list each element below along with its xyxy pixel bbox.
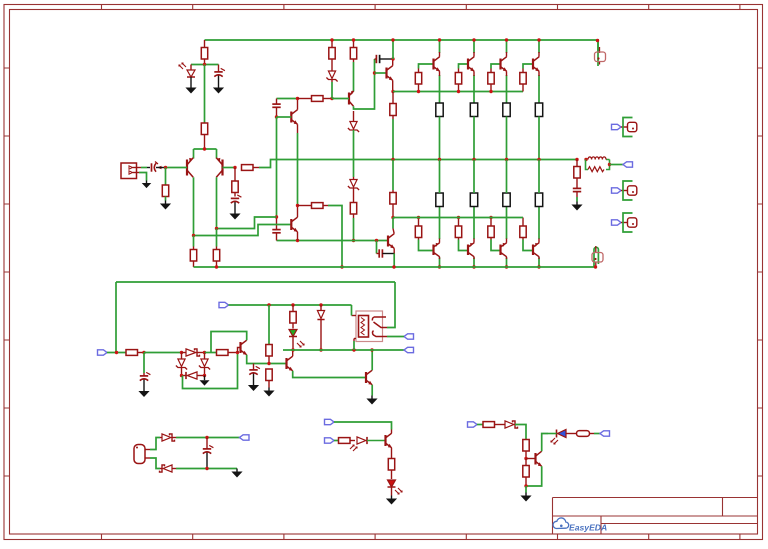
wire <box>439 71 441 76</box>
diode D6 zener <box>176 353 187 376</box>
wire Q4 base <box>332 98 349 100</box>
net pin OUT_A <box>404 334 414 339</box>
wire <box>538 75 540 103</box>
wire <box>503 424 505 426</box>
resistor R10 <box>390 92 396 120</box>
wire <box>387 282 395 328</box>
wire <box>297 99 299 110</box>
wire <box>216 149 218 159</box>
LED D9 green <box>289 330 304 348</box>
wire Q2 collector <box>216 177 218 228</box>
wire <box>393 248 395 253</box>
junction <box>352 348 355 351</box>
wire <box>292 337 294 351</box>
junction <box>594 265 597 268</box>
junction <box>340 265 343 268</box>
resistor R6 <box>298 96 333 102</box>
connector J2 <box>621 118 637 137</box>
relay K1 <box>352 311 388 342</box>
wire node A <box>191 64 219 66</box>
wire <box>392 80 394 91</box>
junction <box>215 265 218 268</box>
ground GND7 <box>199 378 209 386</box>
junction <box>296 97 299 100</box>
wire to V- rail <box>328 206 342 268</box>
wire <box>439 52 441 57</box>
wire <box>268 305 270 345</box>
wire stair A <box>217 217 277 229</box>
junction <box>203 351 206 354</box>
resistor R30 <box>213 247 219 268</box>
junction <box>524 457 527 460</box>
wire <box>538 40 540 53</box>
net pin P_LED3 <box>600 431 610 436</box>
wire <box>526 466 542 486</box>
junction <box>472 265 475 268</box>
wire Q3 base <box>277 116 292 118</box>
wire <box>376 241 378 254</box>
wire bias rail lower <box>393 217 523 219</box>
wire Q1 collector <box>193 177 195 235</box>
wire <box>506 258 508 268</box>
transistor Q19 <box>386 433 392 448</box>
wire <box>297 133 299 206</box>
resistor R39 <box>483 422 503 428</box>
junction <box>203 63 206 66</box>
net pin P_MUTE <box>468 422 478 427</box>
resistor R22 <box>520 218 526 240</box>
ground GND8 <box>138 388 149 397</box>
wire <box>160 437 162 439</box>
ground GND10 <box>263 388 274 397</box>
wire <box>506 40 508 53</box>
transistor Q6 output NPN <box>434 57 440 72</box>
resistor R15 emitter <box>436 103 443 117</box>
wire <box>351 305 353 316</box>
wire Q20 base <box>526 458 536 460</box>
wire <box>297 232 299 241</box>
wire <box>371 385 373 396</box>
wire <box>538 160 540 194</box>
wire <box>506 52 508 57</box>
ground GND14 <box>520 493 531 502</box>
wire <box>353 341 355 350</box>
wire Q9 base <box>523 64 533 69</box>
transistor Q13 output PNP <box>533 243 539 257</box>
wire <box>334 440 339 442</box>
wire V- rail <box>194 266 598 268</box>
connector J1 audio input <box>121 163 141 179</box>
resistor R17 emitter <box>503 103 510 117</box>
junction <box>489 216 492 219</box>
wire <box>391 487 393 496</box>
junction <box>275 215 278 218</box>
transistor Q15 bias servo <box>388 234 394 249</box>
wire <box>473 257 475 259</box>
junction <box>608 163 611 166</box>
wire stair B <box>194 225 292 236</box>
wire Q16 collector <box>211 332 247 353</box>
wire <box>197 352 205 354</box>
wire VAS out rail <box>277 240 389 242</box>
wire Q5 base <box>375 72 387 74</box>
resistor R29 <box>190 247 196 268</box>
junction <box>537 265 540 268</box>
resistor R2 <box>201 123 207 149</box>
wire <box>473 71 475 76</box>
wire <box>473 52 475 57</box>
ground GND11 <box>366 396 377 405</box>
resistor R18 emitter <box>535 103 542 117</box>
wire <box>277 98 298 100</box>
junction <box>537 38 540 41</box>
resistor R41 <box>577 431 595 437</box>
wire <box>439 258 441 268</box>
junction <box>505 265 508 268</box>
wire <box>165 197 167 201</box>
wire <box>204 376 206 378</box>
resistor R12 <box>455 69 461 92</box>
wire <box>150 458 160 469</box>
wire <box>393 254 395 268</box>
transistor Q18 <box>366 370 372 385</box>
junction <box>233 166 236 169</box>
junction <box>205 436 208 439</box>
LED D1 <box>179 63 195 77</box>
wire <box>538 239 540 243</box>
wire <box>172 437 176 439</box>
wire Q7 base <box>459 64 469 69</box>
resistor R36 <box>290 305 296 329</box>
wire Q16 base <box>238 348 241 353</box>
resistor R11 <box>415 69 421 92</box>
wire <box>334 422 392 430</box>
wire <box>391 448 393 459</box>
connector J3 <box>621 181 637 200</box>
resistor R5 feedback <box>242 165 260 171</box>
wire <box>392 160 394 191</box>
polarized capacitor C9 <box>140 372 151 388</box>
wire <box>297 206 299 218</box>
wire protection top <box>116 281 395 283</box>
wire <box>391 430 393 434</box>
diode D3 zener <box>348 111 359 132</box>
ground GND3 <box>142 181 152 189</box>
junction <box>203 374 206 377</box>
resistor R4 <box>232 168 238 197</box>
wire <box>193 236 195 247</box>
wire <box>293 371 366 378</box>
net pin net pin J4 <box>612 220 622 225</box>
wire Q16 emitter <box>247 355 287 364</box>
wire <box>506 117 508 160</box>
svg-text:EasyEDA: EasyEDA <box>569 523 607 533</box>
wire <box>439 160 441 194</box>
transistor Q12 output PNP <box>501 243 507 257</box>
capacitor C4 miller <box>272 99 280 118</box>
ground GND12 <box>231 469 242 478</box>
junction <box>438 265 441 268</box>
diode D10 <box>317 305 324 350</box>
wire relay rail <box>283 349 404 351</box>
wire <box>190 77 192 85</box>
wire <box>172 468 176 470</box>
junction <box>417 216 420 219</box>
junction <box>319 303 322 306</box>
junction <box>291 303 294 306</box>
wire <box>182 352 187 354</box>
net pin net pin J3 <box>612 188 622 193</box>
wire <box>205 352 217 354</box>
wire Q6 base <box>419 64 434 69</box>
net pin TH1 <box>240 435 250 440</box>
wire <box>439 117 441 160</box>
junction <box>596 39 599 42</box>
wire Q13 base <box>523 240 533 251</box>
junction <box>180 374 183 377</box>
transistor Q5 pre-driver <box>387 66 393 81</box>
diode D11 <box>162 434 175 441</box>
connector J4 <box>621 213 637 232</box>
wire <box>297 124 299 133</box>
wire <box>387 336 404 338</box>
connector P2 negative supply <box>592 246 603 267</box>
wire <box>473 75 475 103</box>
polarized capacitor C1 <box>214 65 225 85</box>
resistor R24 emitter <box>470 193 477 207</box>
transistor Q2 <box>216 158 222 178</box>
LED D16 <box>548 430 577 445</box>
wire <box>542 434 548 452</box>
wire <box>107 352 126 354</box>
junction <box>296 204 299 207</box>
junction <box>505 158 508 161</box>
wire <box>439 257 441 259</box>
ground GND4 <box>160 201 171 210</box>
resistor R9 <box>350 188 356 218</box>
junction <box>319 348 322 351</box>
diode D5 <box>186 349 200 356</box>
junction <box>375 239 378 242</box>
junction <box>330 97 333 100</box>
wire <box>473 239 475 243</box>
wire <box>139 173 147 181</box>
wire <box>473 207 475 240</box>
resistor R26 emitter <box>535 193 542 207</box>
junction <box>267 303 270 306</box>
wire <box>538 257 540 259</box>
wire <box>115 282 117 353</box>
junction <box>205 467 208 470</box>
junction <box>505 38 508 41</box>
junction <box>203 147 206 150</box>
junction <box>391 90 394 93</box>
junction <box>438 158 441 161</box>
junction <box>236 351 239 354</box>
ground GND6 <box>571 202 582 211</box>
resistor R3 <box>162 185 168 197</box>
wire <box>143 353 145 374</box>
wire <box>506 257 508 259</box>
ground GND5 <box>229 211 240 220</box>
wire <box>392 119 394 160</box>
net pin IN_PROT <box>98 350 108 355</box>
wire <box>506 75 508 103</box>
wire <box>165 168 167 186</box>
transistor Q10 output PNP <box>434 243 440 257</box>
junction <box>164 166 167 169</box>
net pin P_LED1 <box>325 419 335 424</box>
capacitor C7 <box>377 249 383 257</box>
junction <box>457 216 460 219</box>
transistor Q20 <box>536 451 542 466</box>
diode D13 <box>357 437 367 444</box>
wire <box>439 40 441 53</box>
capacitor C5 <box>375 55 394 63</box>
junction <box>215 227 218 230</box>
transistor Q11 output PNP <box>468 243 474 257</box>
junction <box>472 38 475 41</box>
transistor Q16 <box>241 340 247 355</box>
wire <box>204 65 206 124</box>
wire <box>473 258 475 268</box>
transistor Q3 VAS <box>291 110 297 125</box>
wire V+ rail <box>205 40 599 52</box>
resistor R37 <box>339 438 356 444</box>
junction <box>330 38 333 41</box>
diode D2 zener <box>326 71 337 82</box>
junction <box>296 239 299 242</box>
wire <box>439 239 441 243</box>
wire <box>176 468 237 470</box>
resistor R34 <box>266 345 272 364</box>
polarized capacitor C11 <box>203 438 214 469</box>
transistor Q7 output NPN <box>468 57 474 72</box>
net pin OUT <box>623 162 633 167</box>
resistor R1 <box>201 40 207 65</box>
junction <box>180 351 183 354</box>
wire Q8 base <box>491 64 501 69</box>
wire bias rail upper <box>393 91 523 93</box>
junction <box>142 351 145 354</box>
wire Q10 base <box>419 240 434 251</box>
wire <box>392 218 394 229</box>
junction <box>472 158 475 161</box>
wire <box>515 425 526 440</box>
junction <box>391 57 394 60</box>
wire Q1 base <box>166 167 188 169</box>
resistor R38 <box>388 459 394 480</box>
ground GND9 <box>248 382 259 391</box>
capacitor C8 zobel <box>573 187 581 197</box>
EasyEDA logo <box>553 518 607 533</box>
junction <box>115 351 118 354</box>
resistor R8 <box>350 40 356 62</box>
wire <box>371 350 373 370</box>
wire <box>538 258 540 268</box>
resistor R23 emitter <box>436 193 443 207</box>
wire <box>473 40 475 53</box>
ground GND1 <box>185 85 196 94</box>
wire <box>506 71 508 76</box>
wire <box>538 207 540 240</box>
junction <box>391 38 394 41</box>
wire <box>353 218 355 241</box>
wire <box>473 117 475 160</box>
diode D12 <box>160 465 173 472</box>
wire <box>506 160 508 194</box>
wire <box>150 438 160 450</box>
resistor R7 <box>329 40 335 71</box>
diode D15 <box>505 421 518 428</box>
junction <box>352 239 355 242</box>
wire <box>353 62 355 92</box>
wire <box>353 130 355 177</box>
wire Q11 base <box>459 240 469 251</box>
junction <box>291 348 294 351</box>
LED D14 red <box>388 480 403 494</box>
wire <box>506 239 508 243</box>
resistor R40 <box>523 440 529 459</box>
wire <box>594 433 600 435</box>
wire <box>160 468 162 470</box>
wire <box>193 149 195 159</box>
wire <box>393 229 394 234</box>
junction <box>392 265 395 268</box>
capacitor C6 miller <box>272 217 280 241</box>
resistor R25 emitter <box>503 193 510 207</box>
wire prot rail <box>229 304 352 306</box>
junction <box>584 158 587 161</box>
net pin P_LED2 <box>325 438 335 443</box>
net pin net pin J2 <box>612 124 622 129</box>
ground GND13 <box>386 496 397 505</box>
transistor Q9 output NPN <box>533 57 539 72</box>
transistor Q17 <box>287 356 293 371</box>
wire <box>141 167 147 169</box>
wire <box>144 352 182 354</box>
wire <box>439 207 441 240</box>
wire <box>292 350 294 356</box>
resistor R35 <box>266 369 272 388</box>
junction <box>192 234 195 237</box>
junction <box>275 115 278 118</box>
resistor R42 <box>523 459 529 487</box>
wire <box>538 71 540 76</box>
transistor Q1 <box>187 158 193 178</box>
wire loop <box>183 353 238 389</box>
junction <box>575 158 578 161</box>
wire <box>538 52 540 57</box>
resistor R21 <box>488 218 494 240</box>
junction <box>391 158 394 161</box>
resistor R32 <box>126 350 144 356</box>
net pin OUT_B <box>404 347 414 352</box>
junction <box>267 362 270 365</box>
junction <box>489 90 492 93</box>
transistor Q4 current source <box>349 91 354 107</box>
transistor Q14 VAS cascode <box>291 217 297 232</box>
wire <box>538 117 540 160</box>
resistor R33 <box>217 350 238 356</box>
diode D7 zener <box>199 353 210 376</box>
wire <box>525 486 527 493</box>
polarized capacitor C10 <box>249 364 260 383</box>
wire <box>354 59 375 109</box>
resistor R20 <box>455 218 461 240</box>
junction <box>537 158 540 161</box>
wire <box>331 82 333 99</box>
